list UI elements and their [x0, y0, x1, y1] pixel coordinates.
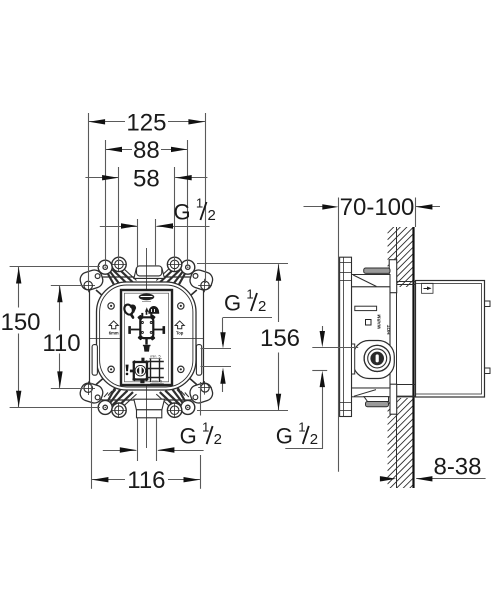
svg-text:G: G — [174, 200, 191, 225]
svg-text:88: 88 — [133, 137, 160, 164]
svg-text:min. 5: min. 5 — [152, 379, 162, 383]
svg-text:58: 58 — [133, 165, 160, 192]
svg-text:1: 1 — [202, 420, 209, 435]
svg-text:Top: Top — [176, 331, 184, 336]
svg-text:min. 5: min. 5 — [150, 354, 160, 358]
svg-text:2: 2 — [258, 298, 266, 315]
svg-text:1: 1 — [246, 287, 253, 302]
svg-text:G: G — [180, 424, 197, 449]
svg-text:70-100: 70-100 — [340, 194, 415, 221]
svg-text:G: G — [224, 291, 241, 316]
svg-text:2: 2 — [208, 207, 216, 224]
svg-text:HOT: HOT — [386, 325, 391, 335]
svg-text:156: 156 — [260, 325, 300, 352]
svg-text:125: 125 — [126, 110, 166, 137]
svg-text:6mm: 6mm — [109, 331, 119, 336]
svg-text:WARM: WARM — [377, 314, 382, 329]
svg-text:1: 1 — [196, 196, 203, 211]
svg-text:8-38: 8-38 — [433, 454, 481, 481]
svg-text:2: 2 — [214, 431, 222, 448]
svg-text:1: 1 — [298, 419, 305, 434]
svg-text:2: 2 — [310, 431, 318, 448]
svg-text:116: 116 — [127, 467, 165, 494]
svg-text:110: 110 — [42, 330, 80, 357]
svg-text:150: 150 — [0, 309, 40, 336]
svg-text:G: G — [276, 423, 293, 448]
